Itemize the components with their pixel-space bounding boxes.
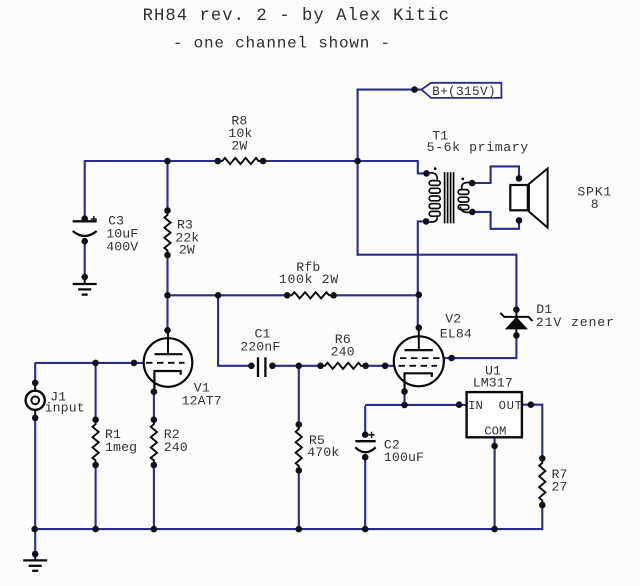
wire V1 plate riser <box>166 295 168 331</box>
node junction dot Rfb rail right end <box>416 292 423 299</box>
label V2 <box>440 311 472 341</box>
resistor Rfb <box>287 292 333 298</box>
terminal dot D1 top <box>513 306 520 313</box>
terminal dot C2 bottom <box>362 454 369 461</box>
resistor R5 <box>296 425 302 471</box>
terminal dot R2 bottom <box>151 462 158 469</box>
node junction dot top rail / B+ vertical <box>354 158 361 165</box>
wire to T1 primary top <box>418 160 427 173</box>
label V1 <box>182 380 222 408</box>
terminal dot C2 top <box>362 431 369 438</box>
resistor R1 <box>93 420 99 465</box>
regulator U1 LM317 <box>467 392 523 439</box>
node junction dot C1 branch on Rfb rail <box>215 292 222 299</box>
svg-text:8: 8 <box>591 197 599 212</box>
terminal dot C1 right <box>269 363 276 370</box>
label D1 <box>536 302 615 330</box>
wire T1 secondary top to SPK1 <box>472 166 519 183</box>
terminal dot T1 secondary bottom <box>469 209 476 216</box>
wire R7 bottom to rail <box>541 505 543 531</box>
terminal dot Rfb left <box>284 292 291 299</box>
wire V2 screen stub <box>444 357 453 359</box>
wire V2 cathode drop <box>403 391 405 405</box>
wire rail to bottom ground symbol <box>34 529 36 555</box>
wire C1 to R6 node <box>272 365 321 367</box>
wire cathode node to U1 IN <box>365 404 466 406</box>
svg-text:B+(315V): B+(315V) <box>432 84 496 99</box>
pin dot U1 IN <box>456 401 463 408</box>
label SPK1 <box>577 184 612 212</box>
node junction dot rail / C2 <box>362 526 369 533</box>
label T1 <box>427 128 529 155</box>
terminal dot R8 right <box>260 158 267 165</box>
terminal dot V1 grid <box>131 360 138 367</box>
wire C1 drop from Rfb rail <box>218 295 251 366</box>
resistor R6 <box>321 363 366 369</box>
svg-text:COM: COM <box>484 425 506 439</box>
pin dot U1 COM <box>491 443 498 450</box>
label R1 <box>105 427 137 455</box>
terminal dot V1 cathode <box>151 388 158 395</box>
wire B+ vertical <box>357 89 359 256</box>
terminal dot R5 top <box>296 421 303 428</box>
svg-text:240: 240 <box>331 344 355 359</box>
wire V1 grid from J1 node <box>35 362 145 364</box>
resistor R2 <box>151 420 157 465</box>
label C2 <box>384 437 424 465</box>
wire R5 bottom <box>298 470 300 529</box>
node junction dot rail / R1 <box>92 526 99 533</box>
node junction dot rail / R5 <box>296 526 303 533</box>
capacitor C2 (electrolytic, + mark) <box>355 432 375 453</box>
terminal dot R1 bottom <box>92 462 99 469</box>
terminal dot R3 bottom <box>164 252 171 259</box>
svg-text:100k 2W: 100k 2W <box>279 272 339 287</box>
svg-text:470k: 470k <box>307 445 339 460</box>
transformer T1 secondary winding <box>458 182 472 212</box>
terminal dot C3 top <box>81 215 88 222</box>
terminal dot R6 left <box>317 363 324 370</box>
label C3 <box>106 214 138 255</box>
terminal dot V2 cathode <box>401 388 408 395</box>
terminal dot R1 top <box>92 416 99 423</box>
wire U1 COM to rail <box>494 437 496 529</box>
wire D1 bottom to V2 screen <box>452 335 517 358</box>
terminal dot R6 right <box>362 363 369 370</box>
pin dot U1 OUT <box>528 401 535 408</box>
node junction dot grid wire / R1 <box>92 360 99 367</box>
svg-text:IN: IN <box>468 399 483 413</box>
node junction dot rail / U1 COM <box>491 526 498 533</box>
wire J1 bottom to rail <box>34 418 36 529</box>
svg-text:21V zener: 21V zener <box>536 315 615 330</box>
svg-text:220nF: 220nF <box>240 340 280 355</box>
svg-text:240: 240 <box>164 440 188 455</box>
capacitor C1 <box>258 357 265 377</box>
resistor R8 <box>218 158 263 164</box>
node junction dot rail left corner <box>31 526 38 533</box>
wire B+ flag stub <box>357 89 422 91</box>
wire top B+ rail left segment <box>85 160 218 162</box>
phase dot T1 secondary <box>461 178 464 181</box>
wire C3 to ground <box>84 241 86 278</box>
svg-text:RH84 rev. 2 - by Alex Kitic: RH84 rev. 2 - by Alex Kitic <box>143 7 450 26</box>
pentode V2 (EL84) <box>394 328 444 392</box>
wire J1 top <box>34 362 36 382</box>
wire B+ to D1 horizontal <box>357 254 517 256</box>
svg-text:5-6k primary: 5-6k primary <box>427 140 529 155</box>
label R8 <box>228 113 252 153</box>
connector J1 input jack <box>26 383 45 418</box>
terminal dot V1 plate <box>164 327 171 334</box>
svg-text:12AT7: 12AT7 <box>182 393 222 408</box>
wire C2 riser <box>364 406 366 435</box>
svg-text:input: input <box>45 401 85 416</box>
phase dot T1 primary <box>434 167 437 170</box>
label R7 <box>552 467 568 495</box>
svg-text:LM317: LM317 <box>473 376 513 391</box>
wire C3 branch top <box>84 160 86 220</box>
svg-text:1meg: 1meg <box>105 440 137 455</box>
terminal dot R2 top <box>151 416 158 423</box>
wire R5 top stub <box>298 365 300 425</box>
svg-text:400V: 400V <box>106 239 138 254</box>
triode V1 (12AT7) <box>144 330 193 392</box>
wire bottom ground rail <box>35 528 543 530</box>
transformer T1 primary winding <box>426 173 440 222</box>
wire Rfb rail left <box>167 294 288 296</box>
wire Rfb rail right <box>334 294 419 296</box>
node junction dot C1/R6/R5 <box>296 363 303 370</box>
wire U1 OUT to R7 <box>522 405 542 459</box>
terminal dot R8 left <box>215 158 222 165</box>
node B+ junction dot at flag <box>411 86 418 93</box>
wire D1 top drop <box>515 254 517 310</box>
terminal dot R5 bottom <box>296 467 303 474</box>
wire T1 secondary bottom to SPK1 <box>472 212 519 229</box>
label C1 <box>240 326 280 354</box>
speaker SPK1 <box>510 169 547 228</box>
wire T1 primary bottom to V2 plate <box>418 221 426 327</box>
terminal dot R3 top <box>164 207 171 214</box>
label J1 <box>45 390 85 416</box>
label R5 <box>307 433 339 460</box>
wire R1 bottom <box>95 465 97 530</box>
node junction dot Rfb rail left end <box>164 292 171 299</box>
svg-text:V2: V2 <box>445 311 461 326</box>
svg-text:100uF: 100uF <box>384 450 424 465</box>
title line 1 <box>143 7 450 26</box>
wire R1 drop <box>95 362 97 420</box>
terminal dot T1 primary top <box>423 170 430 177</box>
node junction dot cathode wire / C2 <box>401 402 408 409</box>
svg-text:27: 27 <box>552 479 568 494</box>
label R6 <box>331 332 355 359</box>
svg-text:EL84: EL84 <box>440 327 472 342</box>
terminal dot V2 plate <box>416 324 423 331</box>
svg-text:2W: 2W <box>179 243 195 258</box>
node junction dot rail / R2 <box>151 526 158 533</box>
ground symbol below C3 <box>73 277 97 295</box>
title line 2 <box>173 34 391 52</box>
zener diode D1 <box>500 310 532 336</box>
wire R6 to V2 grid <box>365 365 394 367</box>
wire R3 top <box>166 160 168 211</box>
terminal dot J1 bottom <box>32 415 39 422</box>
ground symbol bottom left <box>23 554 47 571</box>
resistor R3 <box>164 211 170 256</box>
terminal dot J1 top <box>32 380 39 387</box>
terminal dot T1 secondary top <box>469 180 476 187</box>
terminal dot T1 primary bottom <box>423 218 430 225</box>
power flag B+ (315V) <box>421 83 501 99</box>
label Rfb <box>279 260 339 287</box>
terminal dot SPK1 bottom <box>516 217 523 224</box>
terminal dot D1 bottom <box>513 332 520 339</box>
label R3 <box>175 217 199 257</box>
wire R3 bottom <box>166 255 168 296</box>
wire V1 cathode drop <box>153 392 155 421</box>
terminal dot SPK1 top <box>516 175 523 182</box>
svg-text:- one channel shown -: - one channel shown - <box>173 34 391 52</box>
wire top B+ rail right segment <box>263 160 418 162</box>
terminal dot C3 bottom <box>81 238 88 245</box>
terminal dot C3 ground <box>81 274 88 281</box>
terminal dot Rfb right <box>330 292 337 299</box>
capacitor C3 (electrolytic, + mark) <box>73 216 97 236</box>
terminal dot V2 screen grid <box>448 355 455 362</box>
terminal dot R7 bottom <box>539 502 546 509</box>
resistor R7 <box>539 458 545 505</box>
transformer T1 core <box>445 172 454 223</box>
wire C2 bottom <box>364 457 366 529</box>
label R2 <box>164 427 188 455</box>
node junction dot R3 / top rail <box>164 158 171 165</box>
label U1 <box>473 363 513 390</box>
terminal dot V2 control grid <box>382 363 389 370</box>
wire R2 bottom <box>153 465 155 530</box>
terminal dot R7 top <box>539 455 546 462</box>
terminal dot C1 left <box>248 363 255 370</box>
terminal dot bottom ground <box>32 551 39 558</box>
svg-text:OUT: OUT <box>499 399 523 413</box>
svg-text:2W: 2W <box>231 139 247 154</box>
